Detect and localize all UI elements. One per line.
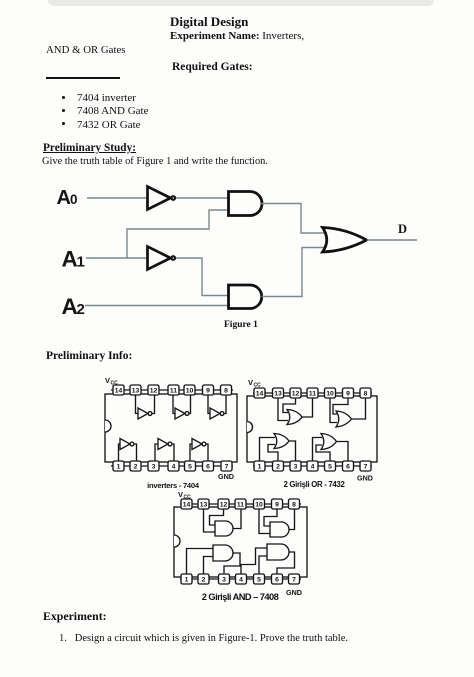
svg-text:1: 1: [258, 464, 262, 471]
OR gate U7A: [278, 398, 313, 425]
IC U7 top rail: [253, 392, 372, 394]
svg-text:A: A: [57, 187, 71, 209]
svg-text:2: 2: [202, 577, 206, 584]
IC U7 body: [247, 396, 377, 462]
IC U8 GND label: [286, 588, 302, 597]
wire U1 output to AND U3 top input: [176, 197, 229, 199]
IC U6 GND label: [218, 472, 234, 481]
IC U8 Vcc label: [178, 490, 191, 501]
node A2 label: [62, 294, 85, 319]
svg-text:V: V: [248, 378, 253, 387]
svg-text:9: 9: [275, 502, 279, 509]
svg-text:GND: GND: [357, 474, 373, 483]
AND gate U8B: [259, 509, 295, 537]
IC U6 top pin numbers: [115, 388, 228, 395]
IC U7 caption 2 Girisli OR - 7432: [283, 480, 345, 489]
figure caption: [224, 320, 258, 330]
svg-text:2: 2: [134, 464, 138, 471]
svg-text:4: 4: [239, 577, 243, 584]
inverter U1: [148, 187, 176, 210]
left heading: [46, 44, 125, 56]
IC U6 bottom rail: [111, 465, 233, 467]
svg-text:6: 6: [346, 464, 350, 471]
svg-text:11: 11: [237, 502, 244, 509]
svg-text:12: 12: [150, 388, 158, 395]
svg-text:13: 13: [132, 388, 140, 395]
svg-text:11: 11: [170, 388, 177, 395]
svg-text:0: 0: [70, 192, 78, 207]
OR gate U7B: [330, 398, 366, 427]
svg-text:5: 5: [328, 464, 332, 471]
svg-text:7: 7: [225, 464, 229, 471]
IC U8 top rail: [180, 503, 301, 505]
IC U6 top pins 14-8: [113, 385, 232, 395]
IC U6 notch: [105, 420, 111, 432]
svg-text:2: 2: [77, 301, 85, 318]
svg-text:11: 11: [309, 391, 316, 398]
OR gate U7C: [260, 434, 296, 462]
svg-text:8: 8: [224, 388, 228, 395]
svg-text:2 Girişli AND – 7408: 2 Girişli AND – 7408: [202, 592, 279, 602]
svg-text:13: 13: [200, 502, 208, 509]
IC U7 top pins 14-8: [254, 388, 371, 398]
svg-text:9: 9: [206, 388, 210, 395]
node D label: [398, 222, 407, 236]
IC U8 bottom pins 1-7: [181, 574, 300, 584]
svg-text:8: 8: [364, 391, 368, 398]
top gray band: [48, 0, 434, 6]
svg-text:9: 9: [346, 391, 350, 398]
svg-text:10: 10: [255, 502, 263, 509]
svg-text:CC: CC: [184, 495, 192, 501]
wire U3 output to OR U5 top input: [261, 204, 324, 234]
svg-text:A: A: [62, 294, 78, 319]
node A1 label: [62, 247, 85, 272]
svg-text:10: 10: [186, 388, 194, 395]
svg-text:12: 12: [292, 391, 300, 398]
wire U4 output to OR U5 bottom input: [262, 248, 325, 297]
wire A1 to inverter U2: [86, 257, 148, 259]
inverter U6B: [173, 395, 191, 419]
svg-text:GND: GND: [286, 588, 302, 597]
IC U6 top rail: [111, 389, 233, 391]
svg-text:2 Girişli OR - 7432: 2 Girişli OR - 7432: [283, 480, 345, 489]
AND gate U3: [229, 192, 263, 216]
svg-text:13: 13: [274, 391, 282, 398]
IC U7 GND label: [357, 474, 373, 483]
IC U6 caption inverters - 7404: [147, 481, 200, 490]
svg-text:CC: CC: [254, 383, 262, 389]
IC U6 bottom pin numbers: [117, 464, 229, 471]
OR gate U7D: [313, 434, 349, 462]
inverter U2: [148, 247, 176, 270]
IC U6 body: [105, 394, 237, 462]
inverter U6F: [190, 439, 208, 462]
wire A2 to AND U4 bottom input: [85, 305, 229, 307]
title block: [170, 14, 248, 30]
svg-text:inverters - 7404: inverters - 7404: [147, 481, 200, 490]
svg-text:5: 5: [257, 577, 261, 584]
svg-text:7: 7: [364, 464, 368, 471]
IC U7 bottom rail: [253, 465, 372, 467]
svg-text:10: 10: [326, 391, 334, 398]
svg-text:1: 1: [77, 254, 85, 271]
IC U7 Vcc label: [248, 378, 261, 389]
svg-text:4: 4: [172, 464, 176, 471]
wire U5 output to node D: [367, 239, 417, 241]
svg-text:7: 7: [292, 577, 296, 584]
preliminary info: [46, 350, 132, 362]
svg-text:3: 3: [294, 464, 298, 471]
AND gate U8D: [241, 544, 295, 574]
IC U8 top pins 14-8: [181, 499, 300, 509]
IC U7 bottom pin numbers: [258, 464, 368, 471]
svg-text:V: V: [105, 376, 110, 385]
svg-text:D: D: [398, 222, 407, 236]
horizontal rule: [46, 77, 120, 79]
svg-text:14: 14: [183, 502, 191, 509]
IC U7 bottom pins 1-7: [254, 461, 371, 471]
wire A0 to inverter U1: [87, 197, 148, 199]
IC U6 bottom pins 1-7: [113, 461, 232, 471]
IC U6 Vcc label: [105, 376, 118, 387]
inverter U6E: [155, 439, 174, 462]
IC U8 bottom rail: [180, 578, 301, 580]
svg-text:A: A: [62, 247, 78, 272]
wire U2 output to AND U4 top input: [176, 258, 229, 296]
svg-text:3: 3: [152, 464, 156, 471]
svg-text:6: 6: [275, 577, 279, 584]
AND gate U8A: [204, 509, 242, 536]
AND gate U8C: [187, 545, 241, 574]
svg-text:6: 6: [206, 464, 210, 471]
IC U7 top pin numbers: [256, 391, 368, 398]
svg-text:GND: GND: [218, 472, 234, 481]
IC U8 top pin numbers: [183, 502, 296, 509]
wire A1 branch to AND U3 bottom input: [127, 210, 229, 258]
svg-text:5: 5: [188, 464, 192, 471]
inverter U6C: [208, 395, 226, 419]
IC U8 body: [174, 507, 307, 577]
IC U8 caption 2 Girisli AND - 7408: [202, 592, 279, 602]
node A0 label: [57, 187, 78, 209]
svg-text:4: 4: [311, 464, 315, 471]
inverter U6D: [119, 439, 137, 462]
svg-text:1: 1: [185, 577, 189, 584]
svg-text:2: 2: [276, 464, 280, 471]
IC U8 bottom pin numbers: [185, 577, 297, 584]
experiment: [43, 609, 107, 624]
AND gate U4: [229, 285, 262, 309]
svg-text:3: 3: [222, 577, 226, 584]
IC U7 notch: [247, 422, 253, 433]
svg-text:CC: CC: [111, 381, 119, 387]
svg-text:14: 14: [115, 388, 123, 395]
IC U8 notch: [174, 535, 180, 547]
inverter U6A: [136, 395, 155, 419]
OR gate U5: [323, 228, 367, 253]
svg-text:14: 14: [256, 391, 264, 398]
svg-text:V: V: [178, 490, 183, 499]
preliminary study: [43, 142, 136, 154]
svg-text:8: 8: [292, 502, 296, 509]
bullet list: [61, 92, 149, 132]
svg-text:12: 12: [220, 502, 228, 509]
svg-text:1: 1: [117, 464, 121, 471]
